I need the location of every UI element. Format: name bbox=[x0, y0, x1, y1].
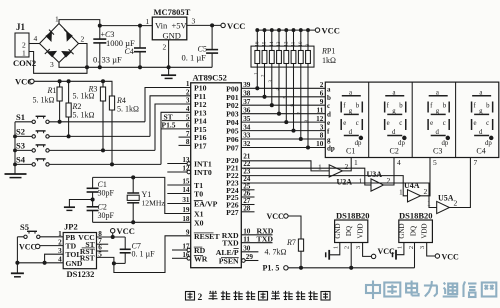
svg-text:0. 1 µF: 0. 1 µF bbox=[132, 250, 156, 259]
switch S5 bbox=[17, 222, 63, 239]
svg-text:1: 1 bbox=[332, 246, 339, 249]
wire sensor1 DQ to P1.5 rail bbox=[350, 243, 352, 268]
wm char wang bbox=[482, 283, 497, 297]
switch S2 bbox=[15, 127, 150, 138]
wire sensor1 VDD to VCC bbox=[363, 243, 372, 257]
wire P00 line a bbox=[241, 87, 325, 89]
wire VCC rail bbox=[34, 81, 112, 96]
ground rail of supply bbox=[59, 63, 212, 68]
wire sensor1 GND to ground bbox=[330, 243, 340, 255]
stub pin7 bbox=[179, 136, 191, 138]
wire P22 to U4A bbox=[241, 176, 407, 196]
svg-text:VCC: VCC bbox=[117, 226, 135, 236]
wm char li bbox=[424, 281, 438, 297]
display block outer box bbox=[325, 82, 499, 157]
resistor R7 pullup bbox=[265, 212, 304, 269]
ground symbol sensor1 bbox=[326, 250, 330, 260]
svg-text:T0: T0 bbox=[194, 190, 203, 199]
svg-text:3: 3 bbox=[355, 246, 362, 249]
svg-text:1: 1 bbox=[359, 177, 363, 186]
svg-text:7: 7 bbox=[186, 130, 190, 138]
switch S1 bbox=[15, 112, 145, 124]
svg-text:11: 11 bbox=[292, 41, 297, 46]
wire U4A out to C3 pin5 bbox=[421, 158, 431, 196]
resistor R3 bbox=[73, 80, 106, 152]
wire U2A out to C1 pin1 bbox=[342, 158, 351, 171]
buffer U5A bbox=[437, 201, 450, 213]
svg-text:P17: P17 bbox=[194, 142, 207, 151]
svg-text:11: 11 bbox=[317, 106, 324, 114]
svg-text:2: 2 bbox=[387, 176, 391, 185]
svg-text:DQ: DQ bbox=[345, 226, 353, 236]
wire U5A out to C4 pin7 bbox=[449, 158, 470, 208]
svg-text:g: g bbox=[327, 136, 331, 144]
svg-text:J1: J1 bbox=[16, 22, 26, 32]
svg-text:JP2: JP2 bbox=[64, 222, 78, 232]
svg-text:1: 1 bbox=[318, 163, 322, 172]
svg-text:GND: GND bbox=[334, 223, 342, 238]
caption char dan bbox=[209, 291, 218, 300]
svg-text:1kΩ: 1kΩ bbox=[322, 56, 336, 65]
svg-text:AT89C52: AT89C52 bbox=[193, 73, 227, 83]
svg-text:C4: C4 bbox=[476, 147, 485, 156]
junction C4 top bbox=[139, 24, 142, 27]
wire P02 line c bbox=[241, 104, 325, 106]
resistor R1 bbox=[33, 80, 63, 124]
stub P24 bbox=[241, 189, 254, 191]
svg-text:S4: S4 bbox=[16, 155, 26, 165]
svg-text:2: 2 bbox=[424, 187, 428, 196]
wire U3A out to C2 pin4 bbox=[384, 158, 395, 186]
caption char tu2 bbox=[321, 292, 330, 301]
overlines EA RESET RD WR bbox=[194, 200, 203, 202]
svg-text:VDD: VDD bbox=[357, 223, 365, 238]
pin 12 INT0 stub with bubble bbox=[167, 171, 187, 173]
svg-text:X0: X0 bbox=[194, 218, 204, 227]
wire VCC pin8 bbox=[97, 236, 126, 238]
svg-text:2: 2 bbox=[198, 293, 203, 303]
svg-text:1: 1 bbox=[146, 17, 150, 26]
watermark zhongguo dianli tongxin wang bbox=[366, 281, 496, 300]
svg-text:12: 12 bbox=[285, 41, 290, 47]
svg-text:10: 10 bbox=[316, 140, 324, 148]
svg-text:2: 2 bbox=[344, 246, 351, 249]
svg-text:+5V: +5V bbox=[172, 21, 188, 31]
svg-text:5: 5 bbox=[433, 158, 437, 167]
crystal Y1 12MHz bbox=[127, 177, 165, 222]
svg-text:P1. 5: P1. 5 bbox=[263, 264, 280, 273]
svg-text:VCC: VCC bbox=[267, 212, 285, 221]
svg-text:DS18B20: DS18B20 bbox=[336, 210, 370, 220]
buffer U2A bbox=[329, 165, 342, 177]
wire P03 line d bbox=[241, 113, 325, 115]
stub ST pin7 bbox=[97, 243, 109, 245]
capacitor C7 bbox=[120, 237, 155, 263]
right pin numbers bbox=[243, 81, 253, 261]
svg-text:9: 9 bbox=[320, 98, 324, 106]
junction C5 top bbox=[211, 24, 214, 27]
svg-text:C4: C4 bbox=[125, 47, 134, 56]
svg-text:VCC: VCC bbox=[19, 242, 37, 251]
caption char pian bbox=[221, 291, 230, 300]
wire sensor2 GND to ground bbox=[397, 243, 404, 255]
svg-text:R1: R1 bbox=[47, 86, 57, 95]
svg-text:VCC: VCC bbox=[322, 26, 340, 36]
VCC terminal RP1 bbox=[315, 28, 319, 32]
svg-text:RST: RST bbox=[80, 254, 95, 263]
wire P23 to U5A bbox=[241, 183, 436, 208]
display segment pin numbers bbox=[316, 81, 324, 148]
net stub ST pin5 bbox=[162, 120, 191, 122]
svg-text:5: 5 bbox=[186, 113, 190, 121]
7-seg digit C2 bbox=[385, 89, 406, 147]
svg-text:PSEN: PSEN bbox=[219, 257, 239, 266]
wire sensor2 VDD to VCC bbox=[427, 243, 436, 257]
pin 16 WR stub with bubble bbox=[172, 257, 187, 259]
junction node1-C3 bbox=[98, 24, 101, 27]
buffer U4A bbox=[408, 190, 421, 202]
overlines ALE/P PSEN bbox=[234, 248, 239, 250]
svg-text:Vin: Vin bbox=[155, 21, 168, 31]
caption char lu bbox=[283, 291, 292, 300]
junction C1 C2 midpoint bbox=[91, 198, 94, 201]
svg-text:VCC: VCC bbox=[442, 252, 460, 261]
display segment pin names bbox=[327, 85, 335, 152]
wire P05 line f bbox=[241, 130, 325, 132]
svg-text:4. 7kΩ: 4. 7kΩ bbox=[265, 248, 287, 257]
svg-text:d: d bbox=[327, 111, 331, 119]
wire P07 line dp bbox=[241, 147, 325, 149]
caption char tu bbox=[186, 292, 195, 301]
stub RST pin6 bbox=[97, 250, 109, 252]
wire S3 to pin3 bbox=[155, 104, 191, 150]
capacitor C4 bbox=[93, 26, 146, 69]
svg-text:ALE/P: ALE/P bbox=[216, 248, 239, 257]
svg-text:13: 13 bbox=[277, 41, 282, 47]
switch common rail to ground bbox=[14, 122, 16, 174]
caption char dian bbox=[271, 291, 280, 300]
svg-text:DQ: DQ bbox=[409, 226, 417, 236]
RP1 vcc rail bbox=[257, 29, 315, 31]
switch S4 bbox=[15, 155, 161, 166]
svg-text:C2: C2 bbox=[390, 147, 399, 156]
resistor pack RP1 bbox=[251, 46, 336, 67]
svg-text:MC7805T: MC7805T bbox=[154, 7, 191, 17]
bridge rectifier diamond bbox=[40, 24, 79, 63]
svg-text:TXD: TXD bbox=[222, 239, 239, 248]
wm char dian bbox=[406, 281, 419, 296]
wire S2 to pin2 bbox=[150, 96, 191, 137]
wm char zhong bbox=[366, 281, 380, 300]
left pin numbers bbox=[182, 80, 190, 259]
svg-text:TXD: TXD bbox=[257, 234, 274, 243]
svg-text:1: 1 bbox=[396, 246, 403, 249]
svg-text:3: 3 bbox=[320, 123, 324, 131]
svg-text:P27: P27 bbox=[226, 208, 239, 217]
wm char tong bbox=[443, 283, 458, 297]
svg-text:a: a bbox=[327, 85, 331, 93]
wire S5 rail down bbox=[16, 237, 18, 273]
wire TOL pin3 tied to GND pin4 bbox=[45, 254, 64, 263]
svg-text:2: 2 bbox=[320, 81, 324, 89]
wire C7 bottom join bbox=[114, 262, 125, 264]
svg-text:2: 2 bbox=[81, 35, 85, 44]
diode D2 top-right bbox=[64, 29, 72, 40]
wire J1 pin2 to bridge node4 bbox=[29, 43, 40, 45]
svg-text:4: 4 bbox=[34, 34, 38, 43]
svg-text:12MHz: 12MHz bbox=[142, 199, 166, 208]
svg-text:DS18B20: DS18B20 bbox=[399, 210, 433, 220]
caption char li bbox=[308, 291, 317, 300]
svg-text:e: e bbox=[327, 119, 330, 127]
svg-text:5. 1kΩ: 5. 1kΩ bbox=[117, 105, 139, 114]
wire P06 line g bbox=[241, 138, 325, 140]
ground symbol crystal bbox=[64, 200, 93, 211]
svg-text:VCC: VCC bbox=[227, 21, 245, 31]
svg-text:8: 8 bbox=[186, 138, 190, 146]
svg-text:S3: S3 bbox=[16, 141, 25, 151]
svg-text:30pF: 30pF bbox=[98, 189, 115, 198]
svg-text:S2: S2 bbox=[16, 127, 25, 137]
diode D4 bottom-right bbox=[62, 49, 73, 57]
svg-text:DS1232: DS1232 bbox=[67, 269, 95, 279]
watchdog U DS1232 bbox=[58, 222, 102, 279]
svg-text:X1: X1 bbox=[194, 210, 204, 219]
7-seg digit C1 bbox=[341, 89, 362, 147]
svg-text:0. 33 µF: 0. 33 µF bbox=[93, 54, 122, 64]
svg-text:30pF: 30pF bbox=[98, 211, 115, 220]
svg-text:2: 2 bbox=[454, 199, 458, 208]
VCC terminal top bbox=[221, 23, 225, 27]
RP1 resistor elements and risers bbox=[255, 29, 311, 149]
stub ALE bbox=[241, 251, 258, 253]
wire regulator pin2 GND bbox=[168, 40, 170, 68]
diode D3 bottom-left bbox=[45, 49, 56, 57]
svg-text:5. 1kΩ: 5. 1kΩ bbox=[33, 96, 55, 105]
svg-text:4: 4 bbox=[397, 158, 401, 167]
svg-text:5. 1kΩ: 5. 1kΩ bbox=[73, 111, 95, 120]
wire P04 line e bbox=[241, 121, 325, 123]
svg-text:b: b bbox=[327, 94, 331, 102]
7-seg digit C3 bbox=[428, 89, 449, 147]
microcontroller U1 AT89C52 bbox=[182, 73, 253, 268]
wire regulator pin3 to VCC bbox=[187, 24, 221, 26]
wire S4 to pin4 bbox=[161, 112, 191, 164]
svg-text:5. 1kΩ: 5. 1kΩ bbox=[73, 91, 95, 100]
wire crystal top rail to X1 bbox=[93, 177, 191, 213]
ground symbol switches bbox=[5, 174, 27, 178]
caption char wei bbox=[259, 292, 268, 301]
resistor R2 bbox=[66, 80, 95, 138]
wire J1 pin1 down and right bbox=[29, 44, 87, 74]
svg-text:C3: C3 bbox=[433, 147, 442, 156]
svg-text:2: 2 bbox=[163, 43, 167, 52]
7-seg digit C4 bbox=[472, 89, 493, 147]
net TXD wire and label bbox=[241, 242, 272, 244]
net RXD wire and label bbox=[241, 234, 272, 236]
svg-text:3: 3 bbox=[50, 60, 54, 69]
stub P27 bbox=[241, 211, 254, 213]
stub pin8 bbox=[179, 144, 191, 146]
svg-text:RP1: RP1 bbox=[321, 47, 335, 56]
display cell dividers bbox=[368, 82, 370, 157]
svg-text:C1: C1 bbox=[346, 147, 355, 156]
svg-text:U3A: U3A bbox=[367, 170, 383, 179]
voltage regulator U MC7805T bbox=[146, 7, 196, 52]
svg-text:1: 1 bbox=[354, 158, 358, 167]
RP1 rotated pin numbers bbox=[255, 41, 312, 123]
stub PSEN with bubble bbox=[242, 259, 246, 263]
svg-text:2: 2 bbox=[345, 162, 349, 171]
svg-text:U2A: U2A bbox=[337, 178, 353, 187]
svg-text:R2: R2 bbox=[72, 102, 82, 111]
svg-text:1: 1 bbox=[22, 49, 26, 58]
pin 15 T1 stub bbox=[167, 184, 190, 186]
caption char yuan bbox=[296, 291, 305, 300]
svg-text:4: 4 bbox=[186, 105, 190, 113]
capacitor C5 bbox=[182, 25, 219, 67]
ground symbol sensor2 bbox=[393, 250, 397, 260]
wire sensor2 DQ to P1.5 rail bbox=[414, 243, 416, 268]
wire DC+ rail into regulator pin1 bbox=[100, 25, 153, 27]
svg-text:CON2: CON2 bbox=[13, 58, 36, 68]
svg-text:S1: S1 bbox=[16, 112, 25, 122]
temperature sensor U DS18B20 no1 bbox=[332, 210, 369, 249]
svg-text:2: 2 bbox=[186, 89, 190, 97]
stub P26 bbox=[241, 204, 254, 206]
svg-text:3: 3 bbox=[192, 16, 196, 25]
svg-text:dp: dp bbox=[327, 145, 335, 153]
svg-text:INT0: INT0 bbox=[194, 168, 212, 177]
svg-text:0. 1 µF: 0. 1 µF bbox=[182, 52, 207, 62]
wire crystal bottom rail to X0 bbox=[93, 221, 191, 223]
svg-text:S5: S5 bbox=[20, 222, 29, 232]
resistor R4 bbox=[109, 96, 139, 166]
switch S3 bbox=[15, 141, 155, 152]
svg-text:6: 6 bbox=[320, 90, 324, 98]
caption char wai bbox=[246, 291, 255, 300]
svg-text:1: 1 bbox=[186, 80, 190, 88]
wire P20 to U2A bbox=[241, 161, 329, 171]
wire bridge node1 to Vin rail bbox=[59, 20, 100, 26]
svg-text:10: 10 bbox=[299, 41, 304, 47]
svg-text:VDD: VDD bbox=[421, 223, 429, 238]
caption char ji bbox=[233, 291, 242, 300]
svg-text:1: 1 bbox=[58, 230, 62, 238]
wire S1 to pin1 bbox=[145, 88, 191, 122]
svg-text:U5A: U5A bbox=[438, 194, 454, 203]
svg-text:GND: GND bbox=[398, 223, 406, 238]
junction bridge neg crossing bbox=[86, 66, 89, 69]
temperature sensor U DS18B20 no2 bbox=[396, 210, 432, 249]
wm char guo bbox=[384, 283, 400, 297]
connector J1 bbox=[13, 22, 36, 68]
svg-text:9: 9 bbox=[306, 44, 311, 47]
diode D1 top-left bbox=[46, 30, 54, 41]
VCC terminal pin8 bbox=[112, 233, 114, 237]
svg-text:6: 6 bbox=[186, 122, 190, 130]
pin 17 RD stub with bubble bbox=[172, 249, 187, 251]
svg-text:1: 1 bbox=[427, 199, 431, 208]
wire GND pin4 to ground bbox=[17, 262, 63, 264]
wire RST pin5 to reset net bbox=[97, 236, 191, 273]
ground symbol supply bbox=[161, 67, 176, 78]
svg-text:8: 8 bbox=[320, 132, 324, 140]
pin 13 INT1 stub with bubble bbox=[167, 163, 187, 165]
wire P21 to U3A bbox=[241, 168, 371, 185]
svg-text:GND: GND bbox=[163, 31, 181, 41]
capacitor C1 bbox=[87, 177, 115, 199]
wm char xin bbox=[464, 282, 477, 298]
svg-text:2: 2 bbox=[408, 246, 415, 249]
stub P25 bbox=[241, 196, 254, 198]
svg-text:c: c bbox=[327, 102, 330, 110]
wire P01 line b bbox=[241, 96, 325, 98]
svg-text:R7: R7 bbox=[286, 238, 296, 247]
pin 14 T0 stub bbox=[167, 193, 190, 195]
svg-text:1: 1 bbox=[55, 15, 59, 24]
net stub P1.5 pin6 bbox=[161, 128, 191, 130]
svg-text:14: 14 bbox=[270, 41, 275, 47]
svg-text:3: 3 bbox=[186, 97, 190, 105]
svg-text:3: 3 bbox=[419, 246, 426, 249]
capacitor C3 bbox=[93, 26, 135, 69]
svg-text:P1.5: P1.5 bbox=[162, 121, 176, 130]
svg-text:P07: P07 bbox=[226, 144, 239, 153]
svg-text:15: 15 bbox=[263, 41, 268, 47]
svg-text:f: f bbox=[327, 128, 330, 136]
ground symbol DS1232 bbox=[11, 273, 24, 277]
svg-text:12: 12 bbox=[316, 115, 324, 123]
pin 31 EA/VP stub bbox=[167, 203, 190, 205]
svg-text:7: 7 bbox=[474, 158, 478, 167]
buffer U3A bbox=[371, 179, 384, 191]
capacitor C2 bbox=[87, 200, 115, 223]
svg-text:1: 1 bbox=[399, 187, 403, 196]
svg-text:16: 16 bbox=[256, 41, 261, 47]
